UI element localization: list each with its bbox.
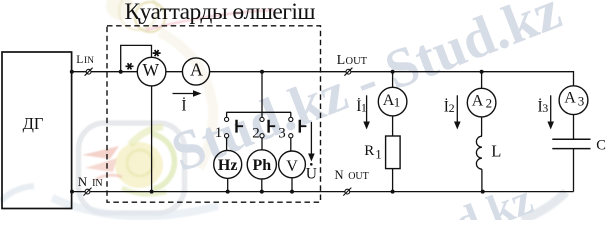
svg-text:R: R <box>364 143 374 159</box>
svg-text:OUT: OUT <box>346 56 368 67</box>
svg-text:3: 3 <box>578 93 585 108</box>
svg-text:W: W <box>143 60 160 80</box>
svg-text:Ph: Ph <box>252 157 271 174</box>
svg-text:U: U <box>306 166 317 183</box>
svg-text:3: 3 <box>542 101 548 115</box>
svg-text:2: 2 <box>486 96 493 111</box>
svg-text:2: 2 <box>449 101 455 115</box>
svg-text:V: V <box>286 158 298 175</box>
svg-text:N: N <box>78 174 88 189</box>
svg-text:IN: IN <box>92 178 103 189</box>
svg-text:L: L <box>491 141 501 160</box>
svg-text:2: 2 <box>252 125 260 141</box>
svg-text:A: A <box>564 90 576 107</box>
svg-text:Stud.kz: Stud.kz <box>388 174 539 220</box>
svg-text:ДГ: ДГ <box>23 114 44 133</box>
svg-text:1: 1 <box>394 95 401 110</box>
svg-text:A: A <box>190 60 203 80</box>
svg-text:C: C <box>596 138 606 154</box>
svg-text:N: N <box>335 168 344 182</box>
svg-text:L: L <box>76 54 83 66</box>
svg-text:İ: İ <box>181 98 186 115</box>
svg-text:1: 1 <box>361 100 367 114</box>
svg-text:3: 3 <box>278 125 286 141</box>
svg-text:IN: IN <box>84 56 94 66</box>
svg-text:OUT: OUT <box>348 171 369 182</box>
svg-text:L: L <box>337 53 346 68</box>
svg-text:1: 1 <box>375 147 382 162</box>
svg-text:Hz: Hz <box>218 157 238 174</box>
svg-text:1: 1 <box>215 125 223 141</box>
svg-text:A: A <box>472 93 484 110</box>
svg-text:Қуаттарды өлшегіш: Қуаттарды өлшегіш <box>125 0 316 25</box>
